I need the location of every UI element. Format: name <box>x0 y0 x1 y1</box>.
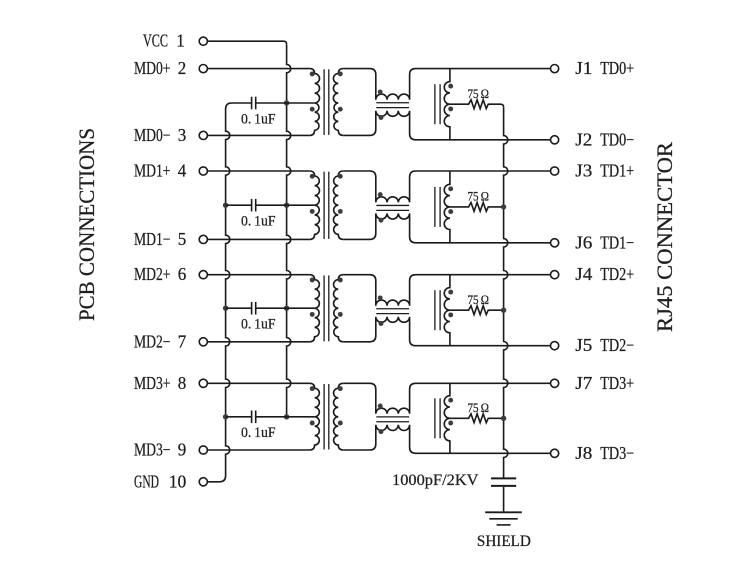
choke L4 dots <box>378 404 383 409</box>
autotransformer A3 winding <box>444 275 450 346</box>
transformer T2 core <box>323 172 325 239</box>
svg-text:MD3−: MD3− <box>134 440 171 460</box>
choke L3 dots <box>378 295 383 300</box>
wire T4 secondary bottom to choke L4, choke bottom winding, wire to J pin <box>343 425 550 454</box>
pin VCC 1 <box>199 37 207 45</box>
transformer T2 primary dots <box>310 174 315 179</box>
transformer T2 secondary dots <box>338 174 343 179</box>
svg-text:MD1−: MD1− <box>134 229 171 249</box>
svg-text:1000pF/2KV: 1000pF/2KV <box>392 472 479 489</box>
choke L1 core <box>376 102 409 104</box>
pin J5 <box>551 342 559 350</box>
wire T2 secondary bottom to choke L2, choke bottom winding, wire to J pin <box>343 213 550 242</box>
title RJ45 CONNECTOR <box>652 142 677 332</box>
transformer T4 primary dots <box>310 386 315 391</box>
pin MD2+ <box>199 271 207 279</box>
autotransformer A3 dots <box>448 290 453 295</box>
svg-text:MD2+: MD2+ <box>134 264 171 284</box>
transformer T4 primary winding <box>310 383 320 450</box>
pin J8 <box>551 449 559 457</box>
svg-text:75 Ω: 75 Ω <box>468 87 490 101</box>
wire MD1+ to transformer T2 primary top <box>207 170 309 172</box>
svg-text:J8: J8 <box>575 443 592 463</box>
node shield bus junction ch2 <box>501 204 506 209</box>
svg-text:4: 4 <box>178 161 187 181</box>
svg-text:TD1−: TD1− <box>600 232 634 252</box>
transformer T3 primary winding <box>310 275 320 342</box>
transformer T1 primary winding <box>310 69 320 136</box>
pin MD3- <box>199 446 207 454</box>
autotransformer A3 core <box>434 290 436 330</box>
autotransformer A1 winding <box>444 69 450 140</box>
node VCC bus junction ch4 <box>284 414 289 419</box>
svg-text:J1: J1 <box>575 58 592 78</box>
transformer T4 core <box>323 384 325 450</box>
svg-text:J5: J5 <box>575 335 592 355</box>
choke L3 core <box>376 308 409 310</box>
pin MD3+ <box>199 379 207 387</box>
svg-text:TD3−: TD3− <box>600 443 634 463</box>
svg-text:2: 2 <box>178 58 187 78</box>
choke L4 core <box>376 416 409 418</box>
resistor R3 75 Ohm <box>450 306 504 315</box>
node GND bus junction ch3 <box>223 306 228 311</box>
svg-text:TD1+: TD1+ <box>600 161 634 181</box>
node VCC bus junction ch2 <box>284 203 289 208</box>
svg-text:1: 1 <box>176 31 185 51</box>
svg-text:MD2−: MD2− <box>134 331 171 351</box>
wire MD3- to transformer T4 primary bottom <box>207 449 309 451</box>
resistor R1 75 Ohm <box>450 100 504 109</box>
pin J3 <box>551 167 559 175</box>
wire VCC vertical bus (hops over signal wires) <box>287 44 291 417</box>
choke L1 dots <box>378 89 383 94</box>
svg-text:0. 1uF: 0. 1uF <box>241 317 276 333</box>
wire C2 left plate to GND bus <box>226 204 252 206</box>
wire GND bus (hops over signal wires) <box>207 103 251 482</box>
resistor R4 75 Ohm <box>450 414 504 423</box>
pin J4 <box>551 271 559 279</box>
wire T2 secondary top to choke L2, choke top winding, wire to J pin <box>343 171 550 202</box>
autotransformer A4 core <box>434 398 436 438</box>
transformer T1 secondary winding <box>333 69 343 136</box>
wire C3 left plate to GND bus <box>226 307 252 309</box>
pin J1 <box>551 65 559 73</box>
svg-text:MD3+: MD3+ <box>134 373 171 393</box>
capacitor C1 0.1uF plates <box>251 97 253 110</box>
pin MD2- <box>199 338 207 346</box>
wire C4 right plate to T4 center tap <box>256 416 315 418</box>
svg-text:TD2+: TD2+ <box>600 264 634 284</box>
svg-text:7: 7 <box>178 331 187 351</box>
node shield bus junction ch3 <box>501 308 506 313</box>
autotransformer A2 winding <box>444 171 450 243</box>
wire cap to shield ground <box>503 487 505 512</box>
pin J7 <box>551 379 559 387</box>
svg-text:SHIELD: SHIELD <box>477 533 531 550</box>
transformer T4 secondary winding <box>334 383 344 450</box>
wire C2 right plate to T2 center tap <box>256 204 315 206</box>
autotransformer A4 winding <box>444 383 450 453</box>
wire VCC pin to bus <box>207 41 286 44</box>
transformer T2 secondary winding <box>333 171 343 239</box>
transformer T3 primary dots <box>310 278 315 283</box>
svg-text:GND: GND <box>134 471 159 491</box>
svg-text:0. 1uF: 0. 1uF <box>241 111 276 127</box>
wire MD2+ to transformer T3 primary top <box>207 274 309 276</box>
transformer T3 secondary winding <box>334 275 344 342</box>
resistor R2 75 Ohm <box>450 203 504 212</box>
svg-text:PCB CONNECTIONS: PCB CONNECTIONS <box>74 128 99 321</box>
pin J6 <box>551 239 559 247</box>
svg-text:TD2−: TD2− <box>600 335 634 355</box>
svg-text:J4: J4 <box>575 264 592 284</box>
wire C3 right plate to T3 center tap <box>256 307 315 309</box>
svg-text:75 Ω: 75 Ω <box>468 190 490 204</box>
wire MD0+ to transformer T1 primary top <box>207 68 309 70</box>
autotransformer A2 core <box>434 187 436 227</box>
transformer T4 secondary dots <box>338 386 343 391</box>
svg-text:TD0+: TD0+ <box>600 58 634 78</box>
node shield bus junction ch4 <box>501 416 506 421</box>
transformer T1 core <box>323 69 325 135</box>
svg-text:9: 9 <box>178 440 187 460</box>
wire T3 secondary top to choke L3, choke top winding, wire to J pin <box>343 275 550 306</box>
pin MD0+ <box>199 65 207 73</box>
svg-text:J7: J7 <box>575 373 592 393</box>
autotransformer A4 dots <box>448 398 453 403</box>
wire C1 right plate to T1 center tap <box>256 102 315 104</box>
svg-text:MD0+: MD0+ <box>134 58 171 78</box>
node VCC bus junction ch3 <box>284 306 289 311</box>
wire T4 secondary top to choke L4, choke top winding, wire to J pin <box>343 383 550 414</box>
pin MD1- <box>199 235 207 243</box>
svg-text:6: 6 <box>178 264 187 284</box>
pin MD0- <box>199 131 207 139</box>
svg-text:MD1+: MD1+ <box>134 161 171 181</box>
svg-text:8: 8 <box>178 373 187 393</box>
transformer T3 secondary dots <box>338 278 343 283</box>
svg-text:VCC: VCC <box>143 31 168 51</box>
transformer T3 core <box>323 275 325 341</box>
svg-text:3: 3 <box>178 125 187 145</box>
svg-text:5: 5 <box>178 229 187 249</box>
node GND bus junction ch4 <box>223 414 228 419</box>
transformer T1 secondary dots <box>338 71 343 76</box>
choke L2 core <box>376 204 409 206</box>
svg-text:J6: J6 <box>575 232 592 252</box>
svg-text:MD0−: MD0− <box>134 125 171 145</box>
wire T1 secondary top to choke L1, choke top winding, wire to J pin <box>343 69 550 100</box>
pin GND 10 <box>199 478 207 486</box>
choke L2 dots <box>378 192 383 197</box>
svg-text:J3: J3 <box>575 161 592 181</box>
node VCC bus junction ch1 <box>284 100 289 105</box>
pin J2 <box>551 136 559 144</box>
pin MD1+ <box>199 167 207 175</box>
node GND bus junction ch2 <box>223 203 228 208</box>
svg-text:TD3+: TD3+ <box>600 373 634 393</box>
ground SHIELD symbol <box>485 511 522 513</box>
svg-text:0. 1uF: 0. 1uF <box>241 214 276 230</box>
svg-text:10: 10 <box>169 471 187 491</box>
wire shield bus (hops over signal wires) <box>504 107 508 478</box>
svg-text:J2: J2 <box>575 129 592 149</box>
autotransformer A2 dots <box>448 186 453 191</box>
svg-text:75 Ω: 75 Ω <box>468 401 490 415</box>
capacitor C2 0.1uF plates <box>251 199 253 212</box>
svg-text:75 Ω: 75 Ω <box>468 293 490 307</box>
autotransformer A1 dots <box>448 84 453 89</box>
capacitor C5 1000pF/2KV plates <box>491 477 516 479</box>
wire MD1- to transformer T2 primary bottom <box>207 238 309 240</box>
wire MD2- to transformer T3 primary bottom <box>207 341 309 343</box>
transformer T1 primary dots <box>310 71 315 76</box>
wire T1 secondary bottom to choke L1, choke bottom winding, wire to J pin <box>343 111 550 140</box>
capacitor C4 0.1uF plates <box>251 411 253 424</box>
svg-text:0. 1uF: 0. 1uF <box>241 425 276 441</box>
title PCB CONNECTIONS <box>74 128 99 321</box>
wire T3 secondary bottom to choke L3, choke bottom winding, wire to J pin <box>343 317 550 346</box>
capacitor C3 0.1uF plates <box>251 302 253 315</box>
wire C4 left plate to GND bus <box>226 416 252 418</box>
wire MD0- to transformer T1 primary bottom <box>207 134 309 136</box>
svg-text:TD0−: TD0− <box>600 129 634 149</box>
wire MD3+ to transformer T4 primary top <box>207 382 309 384</box>
transformer T2 primary winding <box>310 171 320 239</box>
svg-text:RJ45 CONNECTOR: RJ45 CONNECTOR <box>652 142 677 332</box>
autotransformer A1 core <box>434 84 436 124</box>
